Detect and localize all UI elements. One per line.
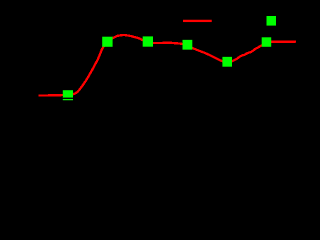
black border stripe cutting marker 1 — [62, 98, 74, 99]
marker square point 2 — [102, 37, 112, 47]
chart: red data line with green square point markers on black background — [0, 0, 314, 118]
legend red line sample — [183, 20, 212, 22]
marker square point 6 — [262, 37, 272, 47]
legend green square sample — [267, 16, 277, 26]
wire: red data curve — [38, 35, 296, 96]
marker square point 4 — [183, 40, 193, 50]
marker square point 1 — [63, 90, 73, 100]
marker square point 5 — [222, 57, 232, 67]
marker square point 3 — [143, 36, 153, 46]
